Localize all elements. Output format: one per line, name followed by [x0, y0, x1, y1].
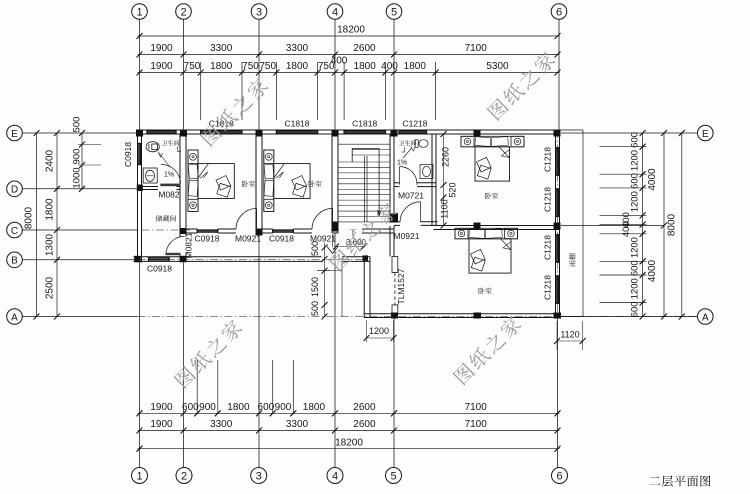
right 4000 chain — [663, 133, 665, 317]
nightstand top — [264, 150, 274, 164]
svg-text:400: 400 — [621, 221, 632, 237]
canopy label — [569, 253, 575, 266]
svg-text:C1218: C1218 — [543, 147, 553, 172]
bathroom2 sink — [420, 165, 433, 179]
svg-text:1800: 1800 — [227, 402, 250, 413]
svg-text:500: 500 — [310, 301, 320, 316]
left letter bubbles — [7, 125, 23, 141]
row B dash-dot inside — [138, 258, 371, 260]
exterior right wall grid6 — [555, 130, 557, 318]
room labels — [156, 215, 176, 221]
svg-text:600: 600 — [258, 402, 275, 413]
svg-text:M0721: M0721 — [398, 191, 424, 201]
svg-text:1: 1 — [136, 471, 142, 483]
svg-text:600: 600 — [630, 132, 641, 148]
bathroom2 right wall — [431, 134, 433, 226]
quilt squares — [216, 176, 231, 191]
svg-text:4000: 4000 — [647, 168, 658, 191]
svg-text:2260: 2260 — [441, 147, 451, 167]
stair down arrowhead V — [332, 234, 334, 247]
bedroom divider wall y225 — [434, 225, 560, 227]
svg-text:1500: 1500 — [310, 277, 320, 297]
left dim chain — [56, 133, 58, 317]
svg-text:18200: 18200 — [335, 438, 363, 449]
svg-text:4: 4 — [332, 7, 338, 19]
quilt fold — [198, 164, 209, 178]
nightstand top — [188, 150, 198, 164]
svg-text:2500: 2500 — [45, 276, 56, 299]
svg-text:C: C — [11, 226, 18, 237]
svg-text:1120: 1120 — [560, 330, 579, 340]
grid6 centreline in wall — [557, 130, 559, 318]
quilt fold — [274, 164, 285, 178]
columns (black) — [136, 130, 143, 137]
corridor window C0918 — [148, 257, 150, 262]
svg-text:C0918: C0918 — [269, 234, 294, 244]
svg-text:4: 4 — [332, 471, 338, 483]
svg-text:1200: 1200 — [630, 237, 641, 258]
svg-text:1800: 1800 — [210, 61, 233, 72]
svg-text:1200: 1200 — [630, 150, 641, 171]
quilt fold — [501, 239, 512, 250]
pillows — [475, 137, 491, 147]
svg-text:400: 400 — [381, 61, 398, 72]
svg-text:5300: 5300 — [486, 61, 509, 72]
svg-text:A: A — [702, 312, 709, 323]
svg-text:1300: 1300 — [45, 233, 56, 256]
svg-text:750: 750 — [259, 61, 276, 72]
bottom dim row3 total — [138, 448, 560, 450]
svg-text:750: 750 — [242, 61, 259, 72]
svg-text:2400: 2400 — [45, 149, 56, 172]
bathroom2 south wall with M0721 — [394, 182, 400, 184]
bed body — [198, 164, 234, 199]
bathroom1 sink — [143, 168, 157, 183]
right bubbles E A — [698, 125, 714, 141]
svg-text:1100: 1100 — [440, 199, 450, 218]
right wall windows C1218 x4 — [556, 147, 560, 149]
left sub chain 500/900/1000 — [81, 133, 83, 189]
row A dash-dot centreline — [138, 316, 698, 318]
bathroom2 toilet — [415, 140, 418, 148]
door M0921 bedroom2 — [332, 208, 334, 229]
svg-text:1%: 1% — [397, 160, 407, 167]
svg-text:7100: 7100 — [465, 419, 488, 430]
grid line stem — [334, 19, 336, 130]
svg-text:18200: 18200 — [337, 25, 365, 36]
svg-text:8000: 8000 — [24, 206, 35, 229]
left dim total 8000 — [36, 133, 38, 317]
svg-text:3300: 3300 — [210, 419, 233, 430]
canopy strip (rain shade) — [582, 130, 584, 317]
door M0821 storage — [166, 253, 181, 255]
right mid line 4000 division — [561, 225, 664, 227]
svg-text:4000: 4000 — [647, 259, 658, 282]
svg-text:400: 400 — [331, 56, 348, 67]
svg-text:C1218: C1218 — [402, 119, 427, 129]
nightstand bottom — [264, 199, 274, 211]
top dim line 18200 — [138, 35, 560, 37]
drawing title — [649, 475, 710, 486]
svg-text:3300: 3300 — [286, 419, 309, 430]
interior wall grid3 — [255, 134, 257, 233]
right detail chain — [642, 133, 644, 317]
svg-text:520: 520 — [448, 182, 458, 197]
svg-text:1800: 1800 — [286, 61, 309, 72]
svg-text:7100: 7100 — [465, 43, 488, 54]
svg-text:600: 600 — [630, 301, 641, 317]
svg-text:M0821: M0821 — [183, 232, 193, 258]
interior wall grid5 (stair right) — [389, 134, 391, 223]
svg-text:C1818: C1818 — [284, 119, 309, 129]
south wall windows C0918 — [196, 229, 198, 233]
svg-text:1900: 1900 — [150, 419, 173, 430]
landing dim chain 500/1500/500 — [324, 243, 326, 317]
svg-text:1200: 1200 — [369, 326, 389, 336]
svg-text:2600: 2600 — [353, 43, 376, 54]
svg-text:900: 900 — [199, 402, 216, 413]
exterior top wall — [138, 129, 560, 131]
right 8000 line — [681, 133, 683, 317]
svg-text:500: 500 — [310, 241, 320, 256]
bathroom2 slope arrow — [403, 148, 412, 159]
svg-text:2: 2 — [180, 7, 186, 19]
svg-text:TLM1527: TLM1527 — [396, 268, 406, 304]
door M0721 bathroom2 — [399, 167, 401, 185]
svg-text:1800: 1800 — [45, 198, 56, 221]
bottom grid bubbles — [132, 468, 148, 484]
svg-text:1000: 1000 — [72, 167, 83, 188]
corridor south wall row B — [134, 256, 322, 258]
grid line stem — [393, 19, 395, 130]
top wall windows — [146, 130, 148, 134]
svg-text:3300: 3300 — [210, 43, 233, 54]
svg-text:600: 600 — [182, 402, 199, 413]
grid line stem — [139, 19, 141, 130]
svg-text:1900: 1900 — [150, 43, 173, 54]
svg-text:900: 900 — [72, 149, 83, 165]
svg-text:600: 600 — [630, 260, 641, 276]
svg-text:C0918: C0918 — [194, 234, 219, 244]
bedroom south wall row C — [180, 228, 197, 230]
TLM1527 sliding door jambs — [392, 257, 398, 273]
svg-text:1%: 1% — [164, 172, 174, 179]
svg-text:500: 500 — [72, 117, 83, 133]
interior dim chain bath2 — [443, 134, 445, 226]
dim 1200 landing — [366, 320, 368, 342]
quilt squares — [477, 157, 492, 172]
svg-text:1: 1 — [136, 7, 142, 19]
bed headboard strip — [188, 150, 198, 211]
nightstand right — [505, 228, 518, 239]
bed headboard strip — [264, 150, 274, 211]
svg-text:C1218: C1218 — [543, 275, 553, 300]
grid line stem — [183, 19, 185, 130]
svg-text:E: E — [702, 129, 709, 140]
grid line stem — [258, 19, 260, 130]
pillows — [188, 164, 198, 179]
grid bubbles top — [132, 4, 148, 20]
nightstand left — [461, 136, 474, 147]
bottom dim row1 detail — [138, 412, 560, 414]
svg-text:3: 3 — [256, 7, 262, 19]
svg-text:1200: 1200 — [630, 191, 641, 212]
exterior left wall — [137, 130, 139, 263]
bed body — [469, 239, 511, 273]
interior wall grid4 (stair left) — [331, 134, 333, 233]
svg-text:1900: 1900 — [150, 402, 173, 413]
top extension lines — [200, 62, 202, 120]
svg-text:1800: 1800 — [354, 61, 377, 72]
nightstand right — [511, 136, 524, 147]
watermarks — [199, 76, 270, 147]
svg-text:6: 6 — [556, 7, 562, 19]
stairs treads upper flight — [339, 143, 391, 145]
svg-text:A: A — [11, 312, 18, 323]
door M0921 bedroom1 — [256, 208, 258, 229]
bed body — [274, 164, 310, 199]
svg-text:2600: 2600 — [353, 402, 376, 413]
bottom wall (south, right part) — [364, 313, 560, 315]
svg-text:M082: M082 — [158, 190, 180, 200]
svg-text:M0921: M0921 — [394, 231, 420, 241]
bed headboard strip — [455, 228, 518, 239]
svg-text:1800: 1800 — [404, 61, 427, 72]
dim 1120 canopy — [556, 321, 558, 350]
landing left wall — [363, 257, 365, 318]
svg-text:3: 3 — [256, 471, 262, 483]
svg-text:2: 2 — [181, 471, 187, 483]
nightstand bottom — [188, 199, 198, 211]
svg-text:600: 600 — [630, 173, 641, 189]
bottom extension lines — [139, 263, 141, 468]
svg-text:C1818: C1818 — [352, 119, 377, 129]
hall south wall with M0921 — [394, 221, 400, 223]
svg-text:D: D — [11, 185, 18, 196]
door M0921 corridor opening extension — [341, 261, 343, 316]
quilt squares — [471, 249, 486, 264]
svg-text:2600: 2600 — [353, 419, 376, 430]
svg-text:6: 6 — [556, 471, 562, 483]
top dim line row3 — [138, 72, 560, 74]
svg-text:1800: 1800 — [303, 402, 326, 413]
bed body — [475, 147, 510, 181]
svg-text:7100: 7100 — [465, 402, 488, 413]
stairs treads lower flight — [339, 161, 391, 163]
row C dash-dot inside — [142, 229, 191, 231]
svg-text:E: E — [11, 129, 18, 140]
quilt fold — [499, 147, 510, 158]
quilt squares — [292, 176, 307, 191]
top dim line row2 — [138, 54, 560, 56]
interior wall grid2 (storage/bedroom1) — [179, 134, 181, 237]
bed headboard strip — [461, 136, 524, 147]
grid line stem — [558, 19, 560, 130]
svg-text:900: 900 — [275, 402, 292, 413]
svg-text:M0921: M0921 — [235, 234, 261, 244]
stair handrail / direction line — [352, 149, 379, 212]
svg-text:1200: 1200 — [630, 278, 641, 299]
svg-text:C1218: C1218 — [543, 187, 553, 212]
label down 3.600 — [350, 229, 357, 236]
svg-text:5: 5 — [390, 471, 396, 483]
svg-text:C0918: C0918 — [147, 264, 172, 274]
svg-text:C0918: C0918 — [123, 142, 133, 167]
nightstand left — [455, 228, 468, 239]
svg-text:5: 5 — [391, 7, 397, 19]
svg-text:750: 750 — [184, 61, 201, 72]
door M0921 hall/bedroom3 — [420, 202, 422, 223]
pillows — [469, 229, 485, 239]
pillows — [264, 164, 274, 179]
bathroom D wall with door M082 — [138, 186, 159, 188]
bottom dim row2 — [138, 430, 560, 432]
wall grid5 lower — [389, 226, 391, 257]
svg-text:8000: 8000 — [667, 213, 678, 236]
short dim line near landing — [336, 246, 364, 248]
left wall window C0918 — [138, 143, 142, 145]
door M082 bathroom1 — [160, 184, 180, 187]
svg-text:B: B — [11, 256, 18, 267]
svg-text:3300: 3300 — [286, 43, 309, 54]
bathroom1 toilet — [146, 142, 159, 152]
svg-text:1900: 1900 — [150, 61, 173, 72]
stair stringer — [364, 156, 366, 222]
bathroom1 slope arrow — [159, 153, 170, 167]
svg-text:C1218: C1218 — [543, 235, 553, 260]
